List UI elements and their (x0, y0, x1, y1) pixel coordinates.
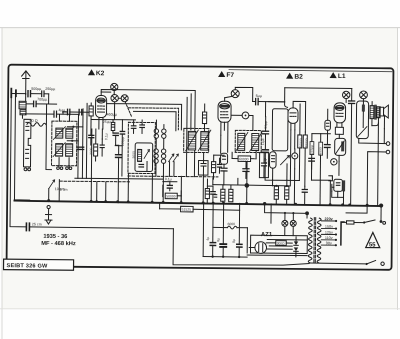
svg-text:4µ: 4µ (206, 237, 210, 241)
IF can 2 dashed (235, 130, 261, 152)
cap 5µµ top right of AF7 (235, 87, 285, 105)
AB2 wiring loop (267, 101, 305, 186)
svg-text:50000: 50000 (299, 138, 303, 147)
short wires in bf1 right gap (67, 103, 87, 178)
bf1 coil bottom-right (66, 144, 73, 157)
svg-text:500µµ: 500µµ (31, 87, 41, 91)
rotated resistor labels right of AB2 (297, 104, 303, 181)
band switch arrows (168, 154, 178, 176)
svg-text:5µµ: 5µµ (256, 94, 262, 98)
heater rect (247, 228, 307, 256)
IF can 1 dashed (184, 128, 209, 152)
frame top doubling line (229, 70, 392, 72)
left long wire B (to bus corner) (14, 94, 30, 201)
cathode network under AK2 (94, 129, 109, 161)
svg-text:125v: 125v (325, 231, 333, 235)
svg-text:51525: 51525 (182, 208, 192, 212)
svg-text:0,1µ: 0,1µ (104, 133, 108, 140)
transformer taps (321, 217, 337, 246)
AF7 grid-cap circle (225, 90, 240, 98)
under-bus RC at 166-177 (163, 177, 182, 202)
IF2 coil right (250, 132, 262, 151)
svg-text:K2: K2 (96, 70, 105, 77)
bf1 coil top-left (53, 127, 65, 140)
gang coupling diagonal (125, 102, 132, 117)
stub wire below bus right (346, 205, 367, 213)
switch near ground (49, 180, 65, 201)
oscillator dashed box (128, 122, 155, 173)
AB2 tube (284, 102, 298, 130)
svg-text:MF - 468 kHz: MF - 468 kHz (41, 241, 76, 247)
bf1 switch contacts (57, 158, 72, 170)
power transformer (305, 211, 321, 263)
plate feed vertical to big dot (246, 159, 248, 186)
AK2 grid-cap circle (101, 83, 118, 94)
tube label AB2 (286, 73, 303, 81)
circled symbol below kbox (331, 159, 337, 165)
filter cap box (203, 203, 248, 257)
AB2 input box (272, 109, 288, 151)
svg-text:25µµ: 25µµ (103, 120, 111, 124)
AF7 anode network below (220, 135, 227, 185)
left long wire A (to bottom cap) (10, 93, 28, 226)
wires bf1 to AK2 region (48, 104, 83, 178)
tube label AF7 (218, 71, 234, 79)
svg-text:150v: 150v (325, 225, 333, 229)
warning triangle 55 (366, 232, 380, 248)
IF1 bottom trimmer box (198, 152, 208, 202)
dashed can bottoms to bus verticals (91, 129, 182, 202)
wire from 51525 down right (239, 203, 271, 223)
cap at 305,188 (302, 186, 307, 204)
svg-text:0,5: 0,5 (264, 159, 268, 164)
svg-text:L1: L1 (338, 73, 346, 80)
cap 1µF left of AB2 (261, 117, 269, 146)
pickup terminals (358, 139, 390, 206)
wires AB2 area down (265, 159, 331, 205)
cap on wire y=113 (62, 109, 89, 115)
svg-text:110v: 110v (325, 236, 333, 240)
AL1 cathode box (335, 138, 346, 161)
svg-text:5000: 5000 (132, 151, 136, 158)
svg-text:55: 55 (369, 242, 376, 248)
wavy resistor 40 (27, 119, 46, 126)
heater feed wire y=212 (265, 204, 308, 214)
svg-text:B2: B2 (294, 74, 303, 81)
boxed 60000 (232, 150, 256, 178)
wire from cap down left of filter (46, 104, 52, 170)
under-bus resistor pair at 206-215 (205, 179, 215, 203)
cap 5000 lower (309, 158, 315, 180)
svg-text:220v: 220v (324, 217, 333, 221)
circled terminal near AF7 (231, 112, 253, 131)
tube label AL1 (330, 72, 346, 80)
band filter 1 dashed can (52, 121, 77, 166)
cluster right of IF1 bottom (resistor + cap) (211, 155, 224, 179)
AK2 tube (95, 92, 106, 129)
long wire y=115 with cap 4µµ (25, 108, 78, 118)
speaker (379, 105, 388, 118)
antenna (21, 71, 30, 94)
svg-text:6000: 6000 (227, 222, 235, 226)
circled terminal mid (292, 149, 298, 169)
electrolytic caps (206, 203, 243, 258)
antenna/earth terminals (11, 89, 25, 98)
padder caps under gang (111, 120, 119, 146)
IF2 coil left (236, 132, 248, 151)
box below IF2 right (259, 153, 268, 178)
cluster near 330-345,172-192 (329, 176, 346, 205)
svg-text:11µF: 11µF (261, 138, 265, 145)
svg-text:90v: 90v (326, 241, 332, 245)
oscillator coil chains (154, 120, 159, 176)
nested wires AK2 plate to IF1 (100, 90, 195, 177)
vertical resistors under AF7 area (214, 185, 233, 203)
resistor box at 90,112 (89, 103, 94, 145)
bf1 coil top-right (66, 128, 73, 138)
antenna coil primary (iron blob) (19, 101, 26, 118)
series cap 700 (26, 97, 49, 106)
choke resistor 6000 (213, 222, 248, 229)
svg-text:1935 - 36: 1935 - 36 (43, 234, 67, 240)
IF1 coil left (186, 130, 199, 151)
cap between circles (284, 88, 355, 205)
svg-text:0,1µ: 0,1µ (165, 177, 172, 181)
AL1 tube (334, 103, 346, 139)
right side verticals power (380, 206, 382, 223)
AF7 tube (218, 98, 232, 153)
svg-text:250µµ: 250µµ (45, 87, 55, 91)
wire: antenna vertical to coil (25, 94, 27, 102)
wire y=120 under AK2 (91, 102, 136, 120)
tone circle w/X (360, 91, 368, 99)
osc inner box (132, 143, 153, 172)
svg-text:60000: 60000 (239, 157, 249, 161)
year / IF text (41, 234, 76, 247)
svg-text:700µµ: 700µµ (37, 97, 47, 101)
svg-text:460µµ: 460µµ (106, 113, 117, 117)
ground symbol (45, 205, 52, 224)
main chassis bus (14, 201, 381, 207)
tuning gang circle 2 (118, 95, 128, 102)
svg-text:300Ω: 300Ω (277, 241, 285, 245)
cap pair at x=80 on wire y=113 (79, 109, 82, 114)
left chassis stub line (75, 177, 163, 180)
trimmer capacitor 500cm (28, 87, 42, 97)
AL1 grid network tall box (356, 99, 368, 139)
AL1 verticals to bus (339, 122, 379, 205)
AZ1 diodes (294, 237, 299, 257)
border frame (7, 65, 394, 270)
wave switch contacts under antenna coil (24, 168, 31, 171)
tuning gang circle 1 (111, 94, 118, 101)
dial lamps (282, 212, 297, 236)
bottom cap 25cm (26, 222, 173, 232)
AL1 grid circle (342, 91, 350, 102)
speaker field wiring (372, 116, 385, 143)
antenna tuning coil (tall box) (23, 119, 30, 167)
IF1 coil right (198, 130, 211, 151)
svg-text:10 cm: 10 cm (55, 187, 65, 191)
svg-text:8µ: 8µ (232, 239, 236, 243)
svg-text:20000: 20000 (304, 138, 308, 147)
boxed resistor 51525 below bus (160, 203, 240, 213)
svg-text:25 cm: 25 cm (32, 222, 42, 226)
bus junction dots (47, 199, 383, 208)
faint page edge lines (0, 27, 400, 29)
output transformer (370, 102, 380, 126)
mains fuse + switch top line (341, 220, 386, 246)
AZ1 tube circle (249, 242, 266, 254)
big padder cap lower (115, 146, 123, 203)
label 50µµ column (262, 102, 269, 159)
svg-text:50000: 50000 (166, 194, 176, 198)
cap 250 on antenna tap (42, 87, 56, 104)
resistor above IF1 (202, 104, 206, 132)
svg-text:F7: F7 (226, 72, 234, 79)
L wire to power box (173, 229, 309, 266)
AZ1 resistor (266, 241, 292, 246)
svg-text:8µ: 8µ (216, 238, 220, 242)
tube label AK2 (88, 69, 105, 77)
title box SEIBT 326 GW (4, 259, 74, 270)
volume potentiometer (264, 152, 290, 180)
wire y=184.5 with big dot (213, 178, 290, 204)
mains switch bottom line (310, 260, 384, 266)
dashed bottom edge under filter cans (60, 180, 130, 183)
power: resistors under bus right (274, 186, 278, 204)
pot box and cap right column (309, 109, 330, 205)
osc caps inside top (131, 120, 144, 134)
bf1 coil bottom-left (53, 143, 65, 157)
svg-text:SEIBT 326 GW: SEIBT 326 GW (7, 263, 49, 269)
svg-text:100µµ: 100µµ (121, 137, 125, 146)
